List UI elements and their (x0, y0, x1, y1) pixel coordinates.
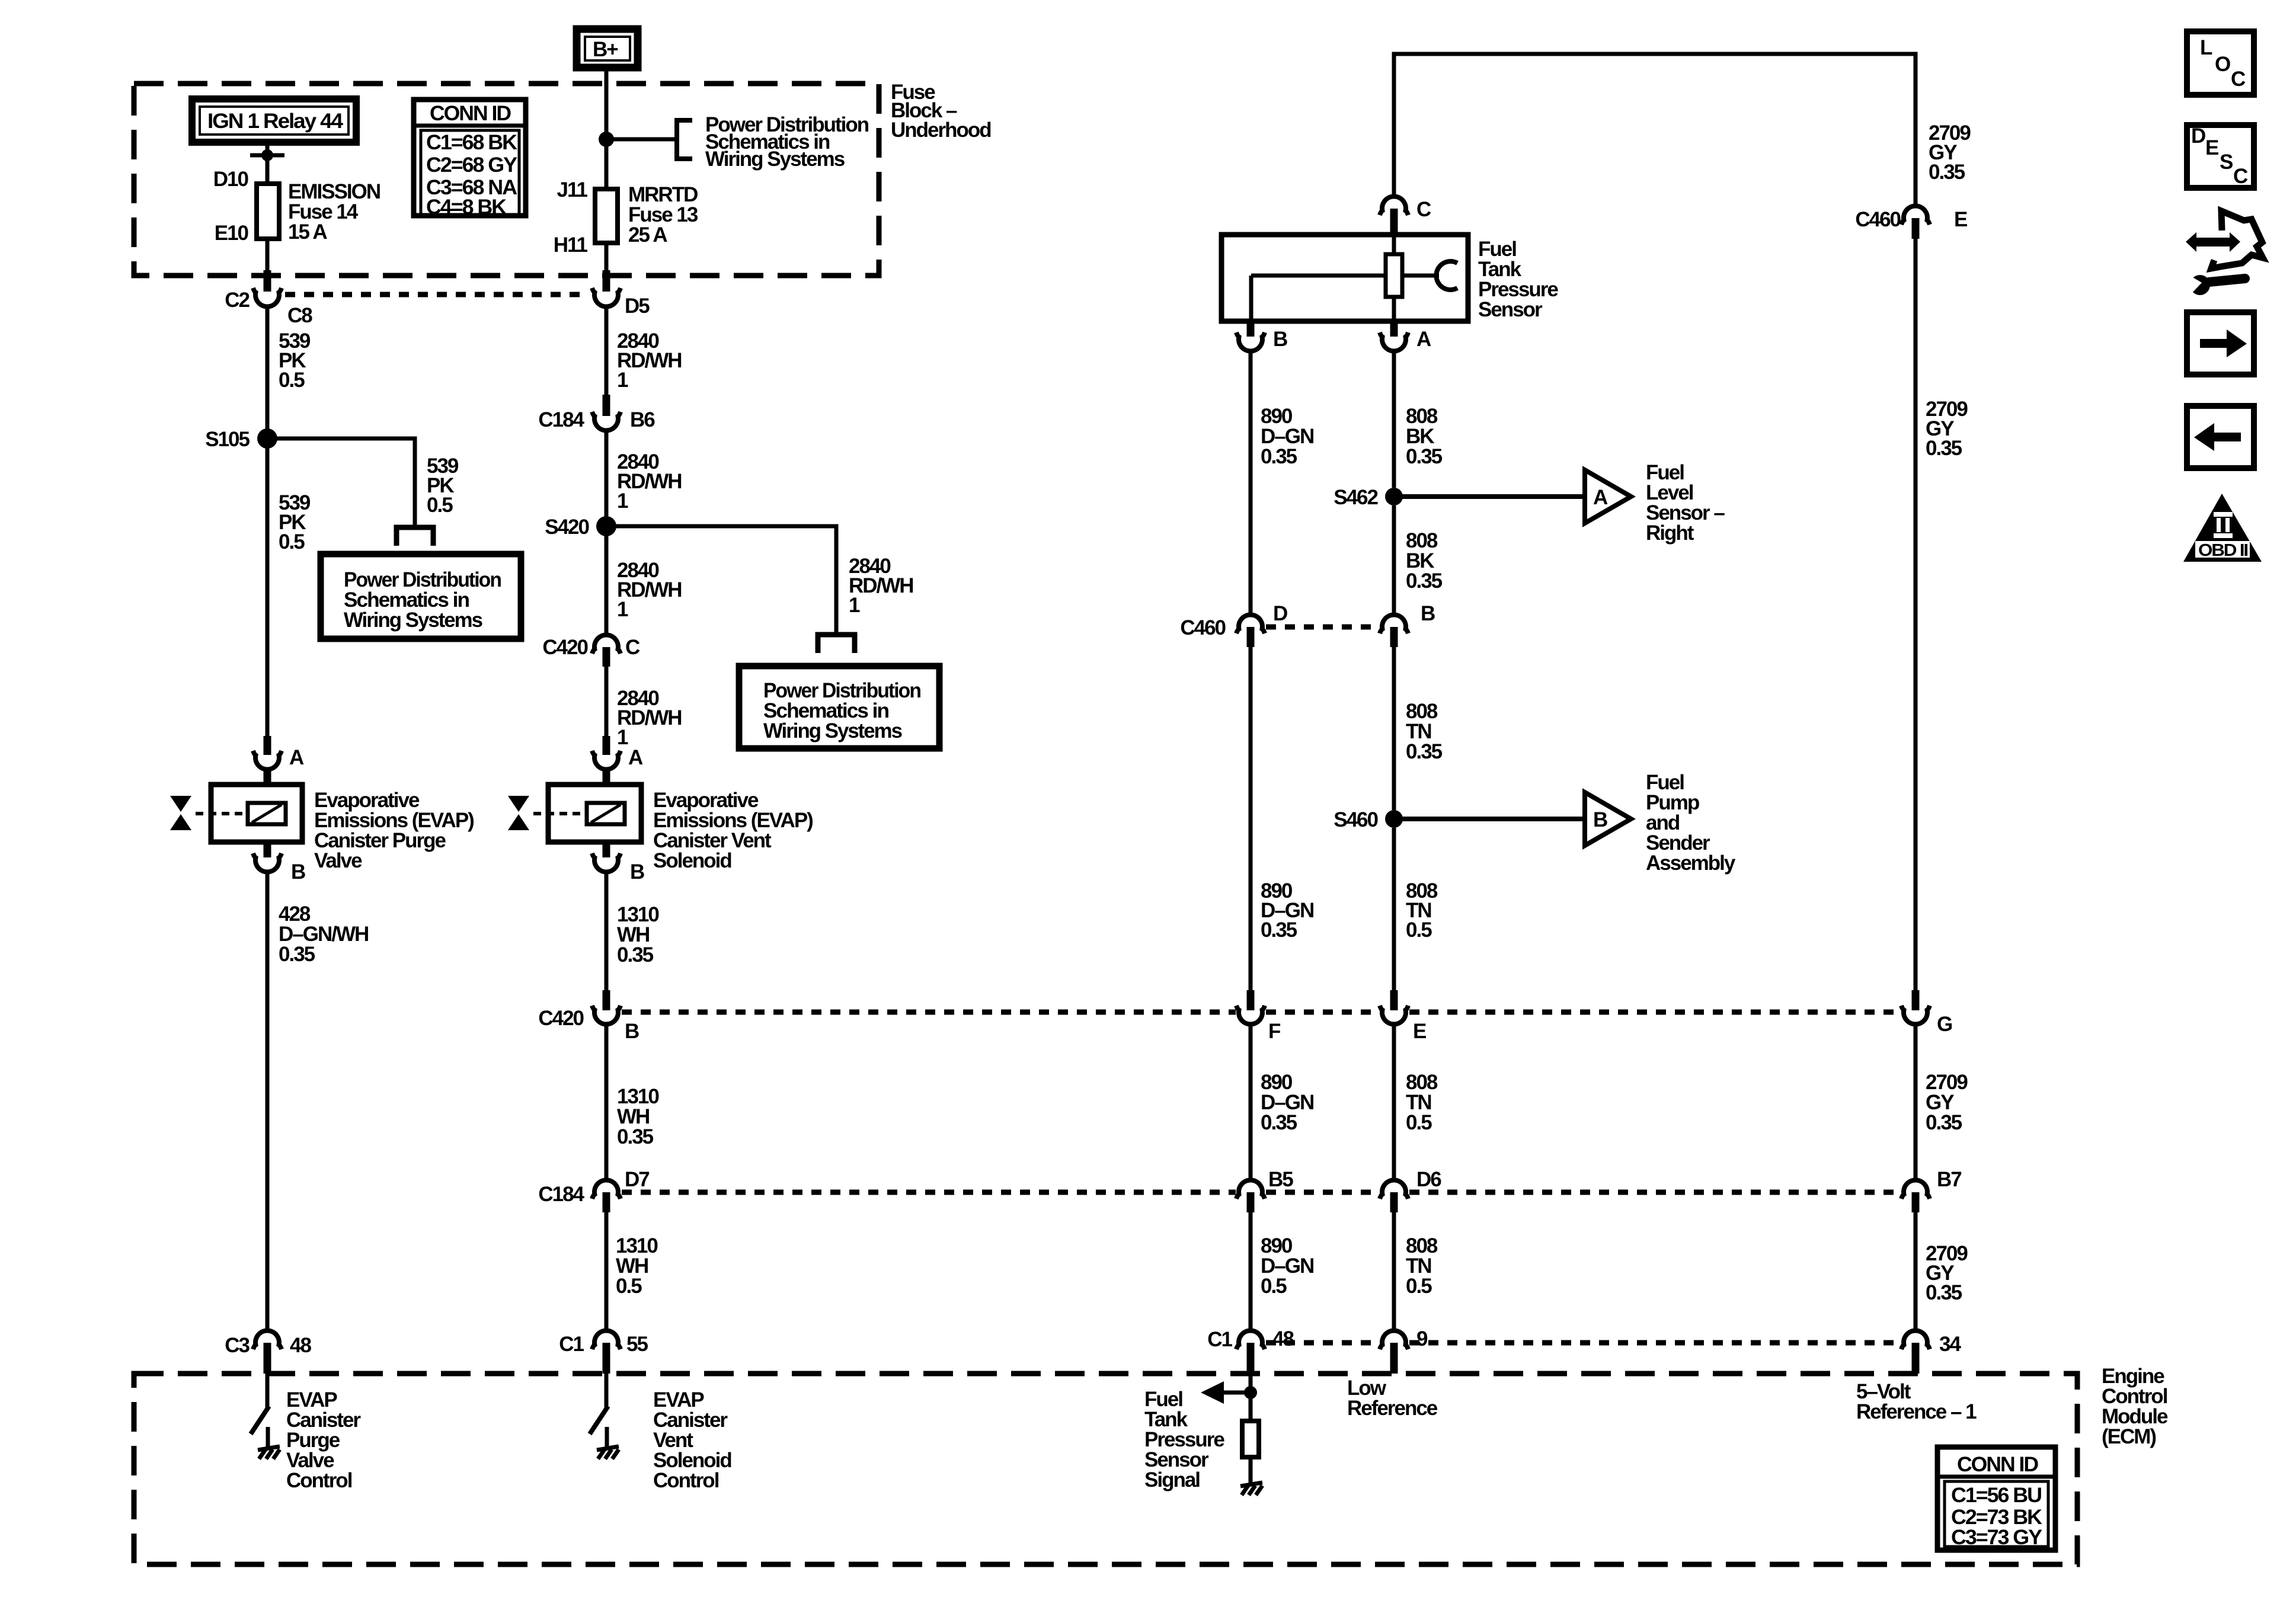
fuel level sensor label (1646, 461, 1725, 545)
svg-text:C1: C1 (1207, 1328, 1232, 1351)
wire label 890 D-GN 0.35 (a) (1261, 405, 1313, 468)
connector C (pressure sensor) (1380, 197, 1408, 235)
svg-text:D7: D7 (625, 1168, 649, 1191)
wire label 1310 WH 0.5 (616, 1234, 658, 1298)
svg-text:0.35: 0.35 (1261, 918, 1297, 942)
svg-text:B: B (291, 860, 305, 884)
wire S420 to C420 (605, 526, 609, 635)
svg-text:0.5: 0.5 (616, 1275, 642, 1298)
sensor internal wiper (1402, 261, 1457, 290)
svg-text:D: D (2191, 124, 2205, 148)
connector line C1-ECM (1266, 1340, 1901, 1346)
wire label 539 PK 0.5 lower (279, 491, 311, 553)
svg-text:34: 34 (1939, 1333, 1961, 1356)
svg-text:C2=68 GY: C2=68 GY (426, 153, 517, 177)
ECM driver switch (purge) (251, 1374, 269, 1449)
wire 808 TN to ECM (1392, 1212, 1396, 1330)
EVAP purge control label (286, 1388, 361, 1492)
svg-text:55: 55 (626, 1333, 648, 1356)
svg-text:C: C (625, 636, 640, 659)
wire label 428 D-GN/WH 0.35 (279, 902, 368, 966)
svg-text:B6: B6 (630, 408, 655, 431)
svg-text:Assembly: Assembly (1646, 852, 1736, 875)
svg-text:C184: C184 (538, 1183, 584, 1206)
EVAP purge valve label (314, 789, 474, 872)
svg-text:0.35: 0.35 (279, 943, 315, 966)
connector C2 pin C8 (253, 270, 282, 306)
fuse F14 EMISSION (257, 184, 279, 239)
connector C184 pin B7 (1901, 1180, 1930, 1212)
wire S460 to fuel pump (1394, 817, 1585, 821)
connector C460 pin B (1380, 615, 1408, 647)
wire label 890 D-GN 0.35 (b) (1261, 879, 1313, 942)
wire 890 D-GN lower (1249, 1026, 1253, 1180)
svg-text:0.35: 0.35 (1926, 1111, 1962, 1134)
svg-text:0.5: 0.5 (279, 530, 305, 553)
EVAP vent control label (653, 1388, 731, 1492)
splice S462 (1385, 488, 1403, 505)
EVAP canister vent solenoid (508, 785, 641, 842)
svg-text:IGN 1 Relay 44: IGN 1 Relay 44 (207, 110, 344, 133)
fuse block - underhood dashed box (134, 84, 879, 276)
EVAP vent solenoid label (653, 789, 813, 872)
wire label 2840 RD/WH 1 (b) (617, 450, 682, 513)
svg-text:0.5: 0.5 (427, 494, 453, 517)
svg-text:E: E (1954, 208, 1967, 231)
svg-text:E10: E10 (215, 222, 249, 245)
svg-text:C1: C1 (559, 1333, 584, 1356)
wire 2709 GY top (1914, 204, 1918, 208)
connector B (sensor) (1236, 321, 1265, 351)
svg-text:A: A (628, 746, 643, 769)
svg-text:0.35: 0.35 (1926, 437, 1962, 460)
svg-text:0.35: 0.35 (1261, 1111, 1297, 1134)
connector B (purge valve) (253, 842, 282, 872)
svg-text:Wiring Systems: Wiring Systems (344, 609, 483, 632)
svg-text:F: F (1268, 1020, 1281, 1043)
svg-text:C: C (1416, 198, 1431, 221)
low reference label (1347, 1377, 1438, 1420)
svg-text:0.5: 0.5 (1406, 1275, 1432, 1298)
icon LOC (2187, 31, 2254, 95)
fuse F14 value label (288, 180, 380, 244)
svg-text:0.35: 0.35 (617, 1125, 654, 1148)
icon arrow left (2187, 406, 2254, 468)
wire 808 BK lower (1392, 505, 1396, 614)
wire 890 D-GN to ECM (1249, 1212, 1253, 1330)
EVAP canister purge valve (170, 785, 302, 842)
CONN ID table (ECM) (1937, 1447, 2055, 1550)
svg-text:S462: S462 (1334, 486, 1378, 509)
svg-text:B5: B5 (1268, 1168, 1293, 1191)
fuel tank pressure sensor label (1478, 238, 1558, 321)
svg-text:0.5: 0.5 (1406, 1111, 1432, 1134)
ground (ECM signal) (1240, 1483, 1262, 1495)
svg-text:C1=56 BU: C1=56 BU (1951, 1484, 2042, 1507)
connector B (vent solenoid) (592, 842, 621, 872)
svg-text:C1=68 BK: C1=68 BK (426, 131, 517, 154)
svg-text:1: 1 (617, 598, 628, 621)
wire fuse F14 to C2 (266, 239, 270, 273)
ground (vent driver) (597, 1446, 619, 1459)
svg-text:Sensor: Sensor (1478, 298, 1543, 321)
wire B6 to S420 (605, 432, 609, 526)
svg-text:C420: C420 (538, 1007, 584, 1030)
svg-text:OBD II: OBD II (2198, 541, 2248, 560)
svg-text:O: O (2215, 53, 2230, 76)
wire 1310 WH upper (605, 873, 609, 991)
wire fuse F13 to D5 (605, 243, 609, 273)
svg-text:D10: D10 (213, 168, 249, 191)
connector C460 pin E (1901, 206, 1930, 239)
svg-text:Wiring Systems: Wiring Systems (763, 719, 903, 742)
svg-text:G: G (1937, 1013, 1952, 1036)
harness end (2840 branch) (818, 635, 855, 653)
svg-text:Reference: Reference (1347, 1397, 1438, 1420)
wire label 808 TN 0.5 (c) (1406, 1234, 1438, 1298)
svg-text:1: 1 (849, 594, 860, 617)
CONN ID table (fuse block) (414, 100, 526, 219)
wire 1310 WH lower (605, 1212, 609, 1330)
svg-text:L: L (2200, 36, 2212, 59)
svg-text:D: D (1273, 602, 1287, 625)
wire 539 PK upper (266, 308, 270, 438)
svg-text:1: 1 (617, 369, 628, 392)
wire D5 to C184 (605, 308, 609, 397)
svg-text:S105: S105 (205, 428, 250, 451)
svg-text:Right: Right (1646, 521, 1694, 545)
connector D5 (592, 270, 621, 306)
wire label 808 BK 0.35 (b) (1406, 529, 1443, 593)
wire label 890 D-GN 0.35 (c) (1261, 1071, 1313, 1134)
wire 2709 GY mid (1914, 239, 1918, 991)
svg-text:Reference – 1: Reference – 1 (1856, 1400, 1977, 1423)
wire label 890 D-GN 0.5 (1261, 1234, 1313, 1298)
wire resistor to ground (1249, 1457, 1253, 1485)
ground (purge driver) (258, 1446, 280, 1459)
wire label 1310 WH 0.35 (b) (617, 1085, 659, 1148)
svg-text:0.35: 0.35 (1929, 161, 1965, 184)
connector line C460 (1266, 625, 1379, 630)
svg-text:C420: C420 (542, 636, 588, 659)
wire S105 to EVAP purge valve (266, 438, 270, 738)
icon wrench and arrow (2186, 211, 2263, 295)
svg-text:B: B (1593, 808, 1607, 831)
svg-text:A: A (289, 746, 304, 769)
svg-text:C2: C2 (225, 289, 250, 312)
connector line C184 (622, 1190, 1901, 1195)
wire label 808 BK 0.35 (a) (1406, 405, 1443, 468)
svg-text:B+: B+ (593, 38, 618, 61)
wire B+ to fuse F13 (605, 68, 609, 189)
wire 428 D-GN/WH (266, 873, 270, 1330)
svg-text:0.35: 0.35 (1406, 569, 1443, 593)
connector C460 pin D (1236, 615, 1265, 647)
svg-text:C184: C184 (538, 408, 584, 431)
icon DESC (2187, 124, 2254, 188)
svg-text:Control: Control (286, 1469, 352, 1492)
wire label 2709 GY 0.35 (d) (1926, 1242, 1968, 1304)
splice S460 (1385, 810, 1403, 828)
wire S462 to fuel level sensor (1394, 494, 1585, 499)
splice S420 (596, 516, 616, 536)
wire C420-C to vent solenoid (605, 667, 609, 738)
svg-text:0.35: 0.35 (1261, 445, 1297, 468)
svg-text:0.35: 0.35 (1406, 445, 1443, 468)
connector C184 pin B5 (1236, 1180, 1265, 1212)
fuse block label (891, 81, 991, 142)
wire label 2709 GY 0.35 (c) (1926, 1071, 1968, 1134)
splice S105 (257, 428, 277, 449)
svg-text:S: S (2220, 151, 2233, 174)
svg-text:0.35: 0.35 (617, 943, 654, 966)
power distribution note (fuse block) (705, 113, 869, 171)
svg-text:C4=8 BK: C4=8 BK (426, 196, 507, 219)
wire 808 TN upper (1392, 647, 1396, 810)
svg-text:C8: C8 (287, 304, 312, 327)
wire label 539 PK 0.5 branch (427, 454, 459, 517)
wire 2709 GY lower (1914, 1026, 1918, 1180)
connector C420 pin G (1901, 990, 1930, 1024)
wire S105 branch (267, 438, 415, 527)
svg-text:0.35: 0.35 (1406, 740, 1443, 763)
svg-text:0.35: 0.35 (1926, 1281, 1962, 1304)
wire label 2709 GY 0.35 (b) (1926, 398, 1968, 460)
junction on B+ feed (599, 132, 614, 147)
svg-text:9: 9 (1416, 1327, 1428, 1350)
connector C184 pin B6 (592, 395, 621, 430)
connector C184 pin D6 (1380, 1180, 1408, 1212)
connector C420 pin C (592, 635, 621, 667)
svg-text:Wiring Systems: Wiring Systems (705, 148, 845, 171)
svg-text:C: C (2231, 68, 2246, 91)
wire label 808 TN 0.5 (b) (1406, 1071, 1438, 1134)
harness end (539 branch) (396, 527, 433, 546)
relay box IGN 1 Relay 44 (192, 99, 356, 142)
connector line C420 (622, 1010, 1901, 1015)
svg-text:15 A: 15 A (288, 220, 327, 244)
svg-text:B: B (1421, 602, 1435, 625)
power distribution bracket (677, 120, 692, 159)
connector pin 34 (1901, 1331, 1930, 1374)
connector C3 pin 48 (253, 1331, 282, 1374)
wire label 2840 RD/WH 1 branch (849, 555, 913, 617)
ECM pull resistor (1242, 1421, 1259, 1457)
svg-text:B7: B7 (1937, 1168, 1961, 1191)
svg-text:0.5: 0.5 (1406, 918, 1432, 942)
power distribution note box (539) (321, 554, 521, 639)
connector C1 pin 48 (1236, 1331, 1265, 1374)
wire 808 TN lower (1392, 1026, 1396, 1180)
wire label 1310 WH 0.35 (a) (617, 903, 659, 966)
svg-text:A: A (1593, 486, 1608, 509)
svg-text:C460: C460 (1855, 208, 1901, 231)
svg-text:48: 48 (290, 1334, 311, 1357)
wire label 808 TN 0.35 (1406, 700, 1443, 763)
engine control module label (2102, 1365, 2168, 1448)
wire 890 D-GN mid (1249, 647, 1253, 991)
power distribution note box (2840) (739, 666, 939, 748)
wire label 539 PK 0.5 (279, 329, 311, 392)
connector C420 pin F (1236, 990, 1265, 1024)
fuse F13 MRRTD (595, 189, 618, 243)
wire label 2840 RD/WH 1 (a) (617, 329, 682, 392)
wire S420 branch (606, 526, 836, 635)
wire 2709 GY to ECM (1914, 1212, 1918, 1330)
svg-text:1: 1 (617, 726, 628, 749)
svg-text:0.5: 0.5 (1261, 1275, 1287, 1298)
svg-text:D5: D5 (625, 295, 650, 318)
svg-text:Underhood: Underhood (891, 119, 991, 142)
svg-text:Solenoid: Solenoid (653, 849, 731, 872)
wire label 2709 GY 0.35 (a) (1929, 121, 1971, 184)
wire label 808 TN 0.5 (a) (1406, 879, 1438, 942)
fuel tank pressure sensor signal label (1144, 1388, 1224, 1491)
wire label 2840 RD/WH 1 (d) (617, 687, 682, 749)
icon OBD II (2183, 494, 2262, 562)
svg-text:B: B (1273, 328, 1287, 351)
svg-text:Signal: Signal (1144, 1468, 1200, 1491)
ECM driver switch (vent) (590, 1374, 608, 1449)
svg-text:E: E (1413, 1020, 1426, 1043)
off-page triangle B (fuel pump) (1585, 792, 1631, 846)
wire 890 D-GN upper (1249, 353, 1253, 614)
connector C184 pin D7 (592, 1180, 621, 1212)
svg-text:0.5: 0.5 (279, 369, 305, 392)
svg-text:B: B (630, 860, 644, 884)
connector line C2-D5 (285, 292, 589, 297)
svg-text:CONN ID: CONN ID (1957, 1453, 2038, 1476)
fuse F13 value label (628, 183, 698, 247)
svg-text:CONN ID: CONN ID (430, 102, 511, 125)
relay output stub (250, 146, 284, 184)
fuel pump label (1646, 771, 1736, 875)
ECM signal node (1244, 1374, 1257, 1421)
svg-text:C3=73 GY: C3=73 GY (1951, 1526, 2042, 1549)
wire 1310 WH middle (605, 1026, 609, 1180)
wire to power distribution reference (606, 137, 677, 142)
wire 808 BK upper (1392, 353, 1396, 488)
svg-text:E: E (2205, 136, 2218, 159)
svg-text:B: B (625, 1020, 639, 1043)
wire sensor C feed (top run) (1394, 54, 1916, 206)
icon arrow right (2187, 312, 2254, 375)
sensor internal resistor (1386, 235, 1402, 321)
connector C420 pin B (592, 990, 621, 1024)
svg-text:C: C (2233, 165, 2248, 188)
connector pin 9 (1380, 1331, 1408, 1374)
signal arrow (1201, 1381, 1251, 1404)
connector C420 pin E (1380, 990, 1408, 1024)
wire label 2840 RD/WH 1 (c) (617, 559, 682, 621)
fuel tank pressure sensor box (1221, 235, 1468, 321)
svg-text:A: A (1416, 328, 1431, 351)
svg-text:S420: S420 (545, 516, 589, 539)
svg-text:1: 1 (617, 489, 628, 513)
svg-text:48: 48 (1272, 1327, 1294, 1350)
svg-text:(ECM): (ECM) (2102, 1425, 2156, 1448)
5-volt reference label (1856, 1380, 1977, 1423)
svg-text:Control: Control (653, 1469, 719, 1492)
svg-text:C3: C3 (225, 1334, 250, 1357)
off-page triangle A (fuel level sensor) (1585, 470, 1631, 523)
connector A (sensor) (1380, 321, 1408, 351)
battery node B+ (577, 29, 638, 68)
sensor internal link to B (1251, 276, 1386, 321)
svg-text:S460: S460 (1334, 808, 1378, 831)
wire 808 TN mid (1392, 828, 1396, 991)
svg-text:25 A: 25 A (628, 223, 667, 247)
connector A (purge valve) (253, 736, 282, 786)
connector A (vent solenoid) (592, 736, 621, 786)
svg-text:C460: C460 (1180, 616, 1226, 639)
connector C1 pin 55 (592, 1331, 621, 1374)
ECM dashed box (134, 1374, 2077, 1564)
svg-text:H11: H11 (554, 233, 588, 257)
svg-text:D6: D6 (1416, 1168, 1441, 1191)
svg-text:J11: J11 (557, 178, 588, 201)
svg-text:Valve: Valve (314, 849, 362, 872)
